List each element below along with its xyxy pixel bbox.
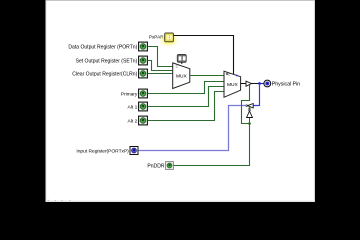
wire config box to MUX1 select (181, 62, 183, 64)
label Alt 1 (128, 104, 138, 110)
junction enable node (248, 122, 251, 125)
wire Primary to MUX2 input 1 (148, 82, 225, 94)
wire inverter output to input buffer enable (249, 108, 251, 109)
mux U1 (output function MUX) (173, 63, 190, 89)
wire Alt 2 to MUX2 input 3 (148, 92, 225, 121)
wire PnDDR to enable junction (174, 124, 250, 166)
svg-text:Alt 2: Alt 2 (128, 118, 138, 124)
junction input buffer enable (248, 107, 250, 109)
svg-text:C: C (176, 65, 178, 69)
wire pin node down to input buffer (253, 84, 259, 106)
wire CLRn to MUX1 input 2 (148, 73, 174, 75)
register bit Primary (139, 89, 148, 98)
pin Physical Pin (264, 80, 271, 87)
input buffer (read path, points left) (246, 104, 253, 109)
wire PORTn to MUX1 input 0 (148, 47, 174, 67)
mux U2 (pin function MUX) (224, 71, 241, 97)
register PxPAR (highlighted) (159, 33, 179, 47)
config box above MUX1 (value 00) (177, 55, 186, 63)
svg-text:Data Output Register (PORTn): Data Output Register (PORTn) (68, 44, 137, 50)
svg-text:Input Register(PORTxP): Input Register(PORTxP) (76, 148, 129, 154)
wire enable junction to inverter input (249, 118, 251, 124)
wire SETn to MUX1 input 1 (148, 61, 174, 71)
wire Alt 1 to MUX2 input 2 (148, 87, 225, 107)
wire input buffer to input register (138, 106, 246, 151)
label Physical Pin (272, 82, 300, 88)
inverter (enable, points up) (247, 109, 253, 117)
wire pin node to physical pin (260, 83, 265, 85)
wire PxPAR to MUX2 select (174, 36, 234, 75)
register bit Alt 1 (139, 102, 148, 111)
label Clear Output Register(CLRn) (72, 71, 137, 77)
label PnDDR (147, 163, 165, 169)
window frame border (46, 1, 315, 202)
label Set Output Register (SETn) (76, 58, 138, 64)
label Input Register(PORTxP) (76, 148, 129, 154)
svg-text:Primary: Primary (121, 92, 138, 98)
register bit PORTn (139, 42, 148, 51)
label Data Output Register (PORTn) (68, 44, 137, 50)
bottom edge specks (scan artifacts) (48, 200, 71, 201)
svg-text:PnDDR: PnDDR (147, 163, 165, 169)
svg-text:C: C (228, 72, 230, 76)
register bit PnDDR (direction) (166, 162, 174, 170)
diagram canvas (46, 0, 315, 202)
output buffer (tri-state driver) (246, 81, 252, 86)
wire enable junction bypass to output buffer enable (242, 85, 250, 124)
register bit Alt 2 (139, 116, 148, 125)
register bit SETn (139, 56, 148, 65)
svg-text:Set Output Register (SETn): Set Output Register (SETn) (76, 58, 138, 64)
register bit CLRn (139, 69, 148, 78)
svg-text:Physical Pin: Physical Pin (272, 82, 300, 88)
label Primary (121, 92, 138, 98)
register bit PORTxP (input register) (130, 147, 138, 155)
node PxPAR label (149, 35, 164, 40)
wire output buffer to pin node (252, 83, 260, 85)
svg-text:Clear Output Register(CLRn): Clear Output Register(CLRn) (72, 71, 137, 77)
junction pin node (258, 82, 261, 85)
wire MUX2 output to output buffer (241, 83, 246, 85)
label Alt 2 (128, 118, 138, 124)
svg-text:MUX: MUX (176, 73, 188, 79)
wire MUX1 output to MUX2 input 0 (190, 75, 224, 77)
svg-text:Alt 1: Alt 1 (128, 104, 138, 110)
svg-text:MUX: MUX (227, 82, 239, 88)
